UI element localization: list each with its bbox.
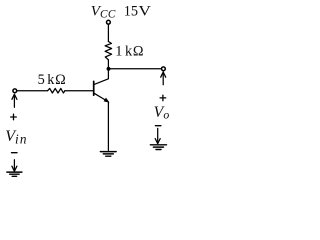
label minus (input) xyxy=(12,152,18,154)
transistor Q1 collector xyxy=(94,71,108,85)
arrow down to ground (output) xyxy=(155,128,160,143)
label 15 V xyxy=(124,4,151,20)
label minus (output) xyxy=(155,125,161,127)
svg-text:1kΩ: 1kΩ xyxy=(115,44,143,60)
label plus (input) xyxy=(11,114,17,120)
transistor Q1 base bar xyxy=(93,81,95,95)
svg-text:Vo: Vo xyxy=(154,104,170,122)
resistor R2 5kohm xyxy=(48,88,65,93)
wire input terminal to R2 xyxy=(17,90,48,92)
wire R2 to base of Q1 xyxy=(65,90,93,92)
wire VCC terminal to R1 xyxy=(107,24,109,41)
ground (input) xyxy=(7,172,22,176)
input terminal Vin xyxy=(13,89,17,93)
svg-text:15: 15 xyxy=(124,4,138,20)
svg-text:5kΩ: 5kΩ xyxy=(38,72,66,88)
resistor R1 1kohm xyxy=(105,42,112,60)
arrow down to ground (input) xyxy=(12,160,17,172)
wire R1 to node C xyxy=(107,60,109,69)
power terminal VCC xyxy=(107,20,111,24)
wire node C to output terminal xyxy=(109,68,161,70)
svg-text:VCC: VCC xyxy=(91,3,116,20)
arrow up at input terminal xyxy=(12,94,17,107)
wire emitter to ground xyxy=(107,102,109,150)
output terminal Vo xyxy=(162,67,166,71)
ground (output) xyxy=(150,145,166,150)
node C junction dot xyxy=(107,67,111,71)
ground (emitter) xyxy=(100,152,116,157)
label plus (output) xyxy=(160,95,166,101)
arrow up at output terminal xyxy=(161,72,166,85)
svg-text:Vin: Vin xyxy=(5,128,28,147)
transistor Q1 emitter with arrow xyxy=(94,93,109,102)
svg-text:V: V xyxy=(138,4,151,20)
